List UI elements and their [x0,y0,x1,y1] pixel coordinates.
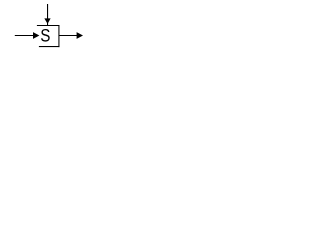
arrowhead: right output [77,32,83,39]
arrowhead: left input [33,32,39,39]
block S: right edge [58,25,59,47]
wire: top input [47,4,48,25]
block S: top edge (overshoots left, no left border) [37,25,60,26]
label S [41,29,50,42]
arrowhead: top input [44,18,50,24]
background [0,0,95,50]
wire: right output [59,35,77,36]
block S: bottom edge [39,46,60,47]
wire: left input [15,35,35,36]
